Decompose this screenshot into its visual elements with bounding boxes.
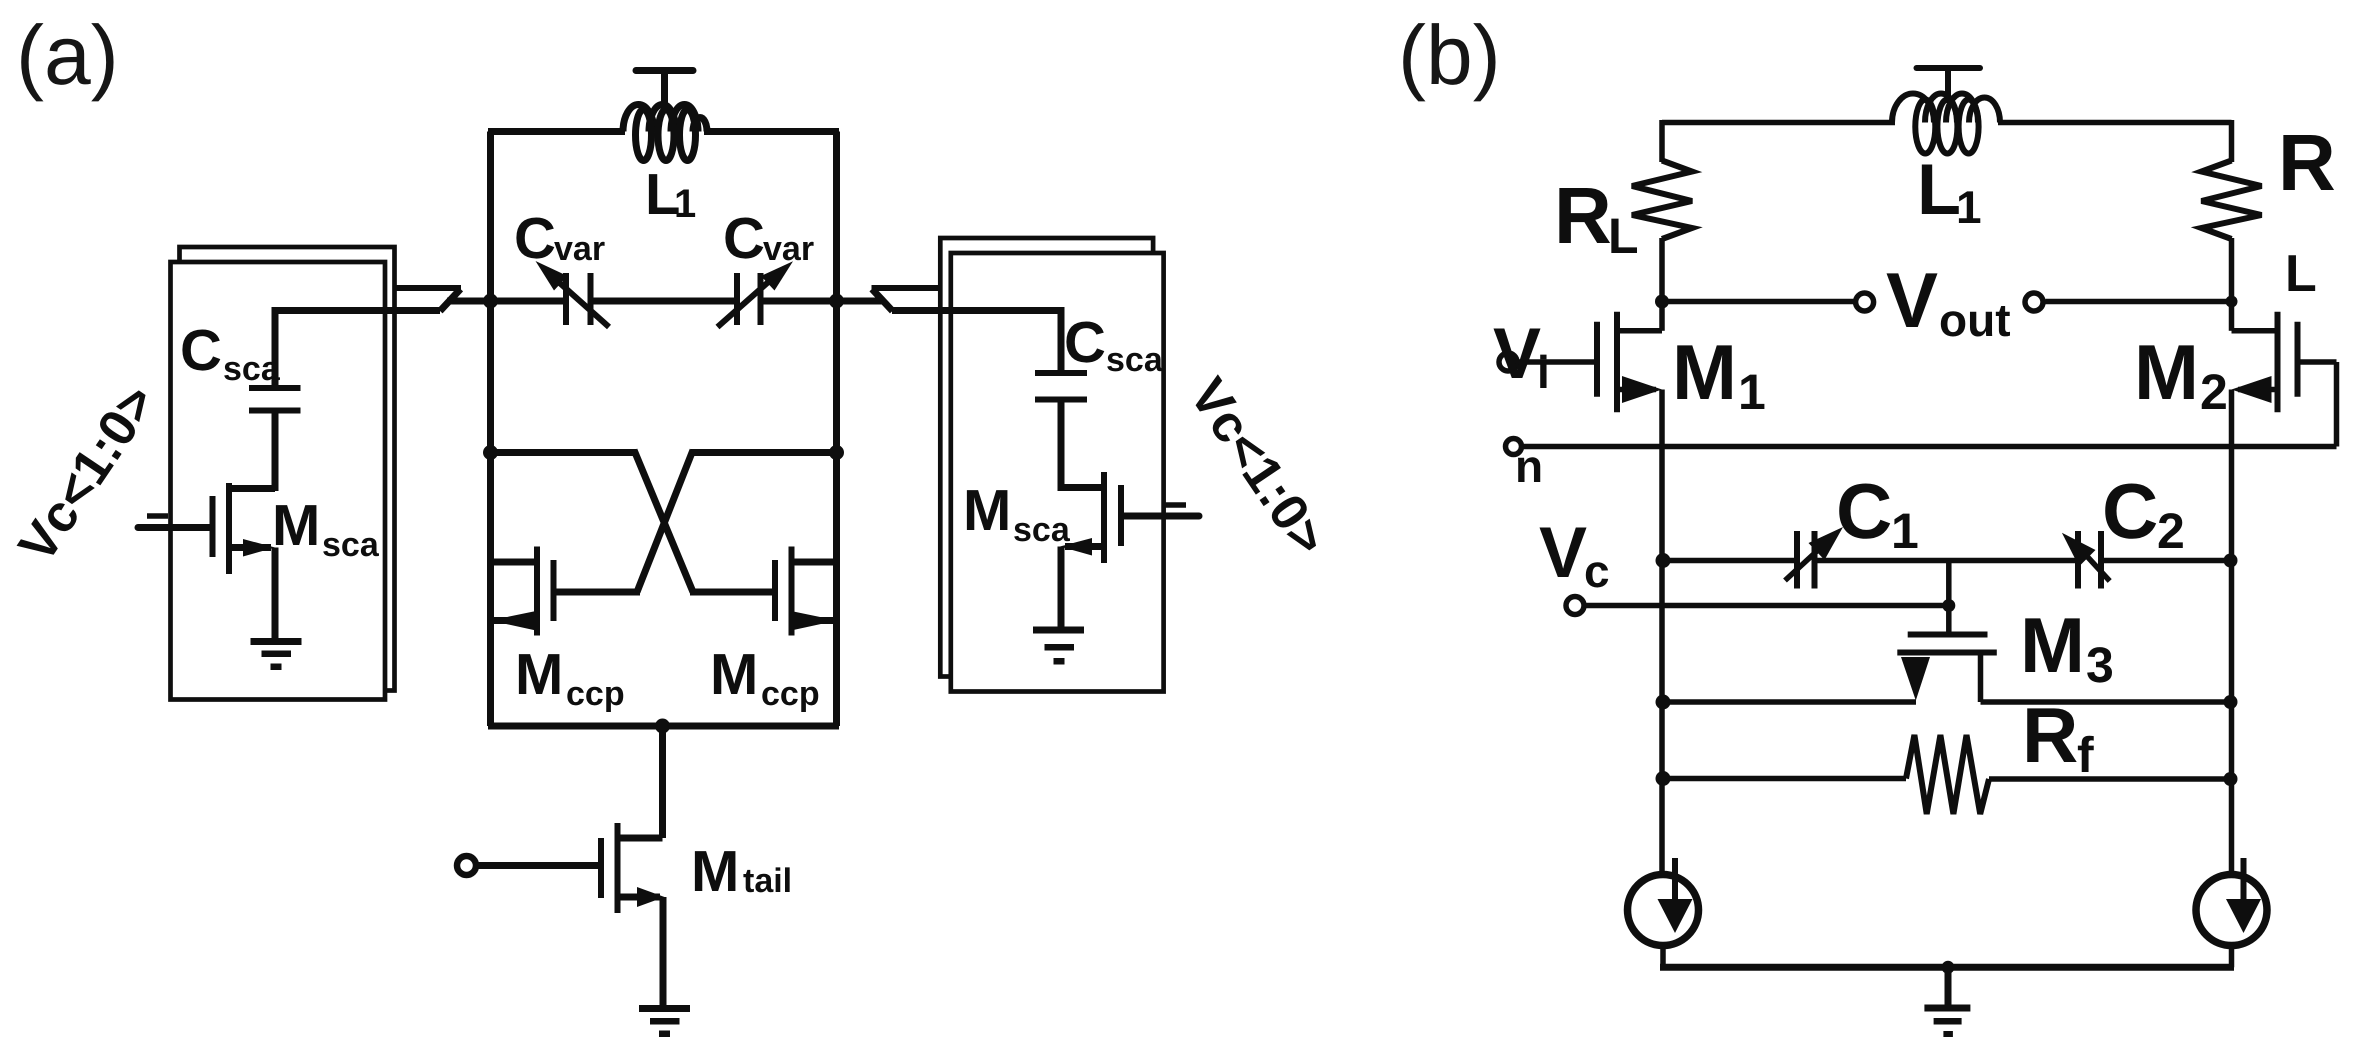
transistor Mtail [457,823,665,1008]
resistor Rf [1656,735,2238,814]
wire RL bottom stub [1659,238,1665,302]
wire top rail left segment [1662,120,1895,126]
svg-text:tail: tail [743,862,792,900]
transistor M2 [2232,299,2337,872]
node dot Vc row left [1656,553,1671,568]
svg-text:3: 3 [2086,637,2114,693]
node dot M3 row right [2224,695,2238,709]
wire bottom rail (a) [488,723,839,730]
svg-text:ccp: ccp [566,675,625,713]
svg-text:i: i [1537,346,1550,398]
svg-text:C: C [723,206,765,271]
node dot right (a) [829,294,844,309]
node dot Vc row right [2224,554,2238,568]
svg-text:L: L [1917,150,1961,230]
wire Vc row left [1662,558,1794,564]
transistor Msca left [138,483,275,638]
wire M3 row left [1662,699,1916,705]
wire right vertical (a tank) [833,132,840,727]
svg-text:C: C [1064,310,1106,375]
capacitor Csca right [1035,373,1087,491]
terminal Vi circle [1499,353,1517,371]
node dot ground (b) [1942,961,1955,974]
svg-text:M: M [1672,328,1737,416]
switched-cap box right [940,238,1163,692]
current source left [1628,858,1699,946]
transistor Mccp left [490,547,554,636]
svg-text:sca: sca [223,350,281,388]
terminal Vout right circle [2025,293,2043,311]
wire Vout left [1662,299,1854,305]
svg-text:M: M [515,642,563,707]
wire left corner stub [1659,120,1665,162]
svg-text:C: C [514,206,556,271]
bus ripper left [395,288,462,311]
wire top edge right segment [704,128,839,135]
svg-text:var: var [554,230,605,268]
transistor Msca right [1060,472,1199,630]
svg-text:R: R [2022,691,2078,779]
cross-coupling wires [491,450,837,592]
svg-text:M: M [963,478,1011,543]
wire Rf row right [1989,776,2232,782]
node dot Vc gate [1942,599,1955,612]
svg-text:sca: sca [1106,341,1164,379]
cross node dot right [829,445,844,460]
svg-text:C: C [1836,467,1892,555]
switched-cap box left [171,247,395,700]
wire tail stem [659,726,666,838]
svg-text:V: V [1886,256,1938,344]
output node row [1655,293,2238,311]
transistor Mccp right [775,547,837,636]
wire Vout right [2046,299,2232,305]
wire node row right [761,298,885,305]
tail node dot [655,719,670,734]
svg-text:out: out [1939,294,2011,346]
resistor R [2202,161,2262,240]
wire cross top right [691,449,837,456]
cross node dot left [483,445,498,460]
svg-text:(a): (a) [16,8,119,102]
svg-text:M: M [691,839,739,904]
wire Vc row right [2104,558,2232,564]
ground left box [251,638,302,670]
wire cross diagonal right-to-left [637,450,693,592]
transistor M1 [1517,299,1662,872]
wire M3 row right [1981,699,2232,705]
node n wire [1521,444,2337,450]
control terminal Vc [1566,597,1949,615]
svg-text:C: C [180,318,222,383]
svg-text:V: V [1539,513,1587,593]
wire Csca left top [275,311,440,391]
svg-text:2: 2 [2157,503,2185,559]
capacitor Csca left [249,388,301,491]
terminal Vout left circle [1856,293,1874,311]
node dot Rf row left [1656,771,1671,786]
inductor L1 (b) [1892,93,2000,153]
wire left vertical (a tank) [487,132,494,727]
svg-text:1: 1 [1956,181,1982,233]
terminal n circle [1506,439,1522,455]
wire Vc row mid [1818,558,2076,564]
wire top edge left segment [488,128,625,135]
varactor Cvar left [536,261,610,327]
bus ripper right [872,288,941,311]
svg-text:f: f [2077,727,2094,783]
current source right [2196,858,2267,946]
varactor Cvar right [718,261,794,327]
svg-text:1: 1 [674,182,696,226]
svg-text:(b): (b) [1398,8,1501,102]
svg-text:1: 1 [1738,364,1766,420]
varactor C1 [1785,527,1843,589]
ground (a tail) [639,1005,690,1037]
varactor C2 [2062,531,2110,589]
svg-text:M: M [2134,328,2199,416]
resistor RL [1632,161,1692,240]
svg-text:M: M [2020,601,2085,689]
wire gate left Mccp [556,589,640,596]
ground right box [1033,627,1084,665]
wire right corner stub [2229,120,2235,162]
svg-text:M: M [710,642,758,707]
top rail (b) [1662,120,2232,162]
wire node row mid [591,298,738,305]
supply terminal (a) [636,71,693,113]
svg-text:L: L [1608,208,1639,264]
wire top rail right segment [1998,120,2232,126]
transistor M3 [1897,635,1997,703]
node dot Vout left [1655,295,1669,309]
svg-text:2: 2 [2200,364,2228,420]
wire cross top left [491,449,637,456]
svg-text:sca: sca [322,526,380,564]
wire cross diagonal left-to-right [634,450,693,592]
svg-text:L: L [2285,245,2317,303]
node dot left (a) [483,294,498,309]
svg-text:M: M [272,493,320,558]
svg-text:n: n [1515,440,1543,492]
wire node row left [447,298,566,305]
node dot Rf row right [2224,772,2238,786]
node wire row (a) [447,298,884,305]
svg-text:V: V [1493,314,1541,394]
wire Rf row left [1662,776,1906,782]
svg-text:c: c [1584,545,1610,597]
control row Vc (varactor row) [1656,553,2238,568]
supply terminal (b) [1917,68,1981,103]
wire Csca right top [892,311,1061,376]
node dot Vout right [2226,296,2238,308]
bottom rail (b) [1660,945,2234,974]
inductor L1 (a) [623,105,707,161]
svg-text:C: C [2102,467,2158,555]
ground (b) [1924,967,1970,1037]
svg-text:sca: sca [1013,511,1071,549]
svg-text:R: R [1554,171,1612,260]
LC tank frame wires (a) [488,132,839,727]
source row (M3 row) [1656,695,2238,710]
svg-text:1: 1 [1891,503,1919,559]
svg-text:ccp: ccp [761,675,820,713]
wire gate right Mccp [690,589,773,596]
svg-text:R: R [2278,118,2336,207]
wire R bottom stub [2229,238,2235,302]
node dot M3 row left [1656,695,1671,710]
svg-text:var: var [763,230,814,268]
wire mid stub (C1-C2 to M3 gate) [1946,561,1952,633]
